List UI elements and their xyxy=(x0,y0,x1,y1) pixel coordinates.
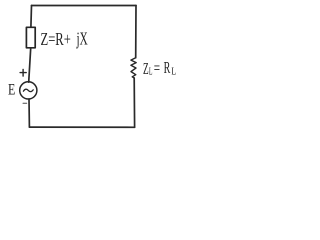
resistor ZL zigzag xyxy=(131,58,136,78)
wire right upper (resistor to top corner) xyxy=(135,6,137,58)
wire box to source xyxy=(29,48,31,82)
svg-text:L: L xyxy=(171,65,176,77)
wire right lower (corner to resistor) xyxy=(133,78,135,127)
wire top xyxy=(32,5,137,7)
wire bottom xyxy=(29,126,134,128)
svg-text:Z: Z xyxy=(143,59,149,78)
svg-text:jX: jX xyxy=(76,29,88,49)
svg-text:E: E xyxy=(8,82,15,99)
svg-text:R: R xyxy=(164,58,171,77)
impedance Z (series box) xyxy=(26,27,35,48)
minus polarity mark xyxy=(23,102,27,104)
svg-text:Z=R+: Z=R+ xyxy=(41,29,71,49)
plus polarity mark xyxy=(20,69,26,76)
svg-text:=: = xyxy=(154,59,160,78)
wire source to bottom corner xyxy=(28,99,30,127)
wire left upper (corner to box) xyxy=(30,6,33,28)
svg-text:L: L xyxy=(149,65,153,77)
AC source tilde xyxy=(23,89,33,91)
AC source E circle xyxy=(20,82,37,99)
